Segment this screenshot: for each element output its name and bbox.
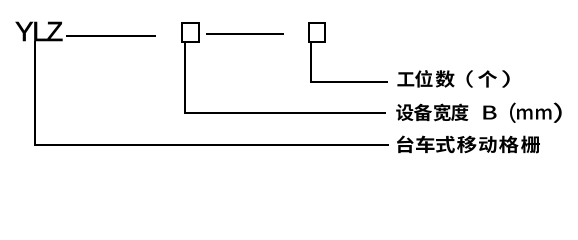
wire from YLZ to box 1 xyxy=(66,35,156,37)
placeholder box 2 (station count digit) xyxy=(308,22,327,43)
label: 工位数（个） xyxy=(0,0,578,179)
leader from box 2 to station-count label xyxy=(0,0,578,1)
leader from box 1 to width label xyxy=(0,0,578,1)
label: 台车式移动格栅 xyxy=(0,0,578,179)
leader from YLZ to series-name label xyxy=(0,0,578,1)
wire from box 1 to box 2 xyxy=(206,33,284,35)
label: 设备宽度 B（mm） xyxy=(0,0,578,179)
model code YLZ xyxy=(15,22,62,42)
placeholder box 1 (equipment width digit) xyxy=(181,22,200,43)
